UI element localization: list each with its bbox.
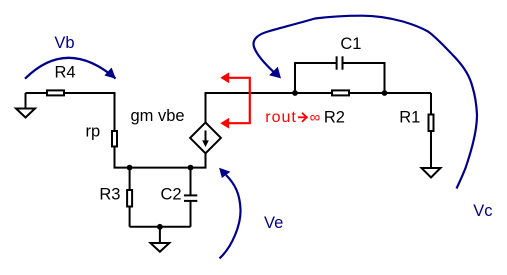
node (junction dot R3)	[127, 165, 133, 171]
svg-text:Vc: Vc	[473, 202, 492, 220]
dependent current source gm vbe	[190, 123, 221, 154]
wire	[129, 207, 131, 227]
wire	[206, 93, 432, 123]
resistor R3	[127, 190, 132, 207]
wire	[430, 131, 432, 168]
rout red bracket with arrows	[229, 78, 250, 123]
node (junction dot C1 left)	[292, 90, 298, 96]
capacitor C2	[184, 168, 197, 227]
wire	[130, 226, 191, 228]
node (junction dot gnd)	[157, 224, 163, 230]
svg-text:Ve: Ve	[264, 214, 283, 232]
svg-text:R3: R3	[99, 185, 120, 203]
svg-text:R4: R4	[55, 63, 76, 81]
wire	[430, 93, 432, 115]
Ve arc arrow	[220, 175, 241, 258]
svg-text:gm vbe: gm vbe	[131, 107, 185, 125]
svg-text:C2: C2	[161, 185, 182, 203]
node (junction dot C1 right)	[382, 90, 388, 96]
svg-text:C1: C1	[340, 35, 361, 53]
svg-text:rout: rout	[265, 109, 297, 126]
wire	[115, 147, 206, 168]
ground	[16, 93, 35, 118]
svg-text:rp: rp	[86, 122, 101, 140]
wire	[64, 93, 115, 131]
ground	[151, 227, 170, 252]
node (junction dot C2)	[188, 165, 194, 171]
svg-text:R2: R2	[324, 108, 345, 126]
ground	[422, 168, 441, 178]
wire	[129, 168, 131, 190]
resistor R4	[47, 90, 64, 95]
resistor rp	[112, 131, 117, 147]
resistor R2	[332, 90, 349, 95]
resistor R1	[429, 115, 434, 132]
Vb arc arrow	[25, 58, 116, 79]
svg-text:∞: ∞	[310, 109, 321, 126]
svg-text:Vb: Vb	[54, 34, 74, 52]
Vc big curve arrow	[254, 16, 477, 189]
wire	[26, 92, 47, 94]
svg-text:R1: R1	[399, 108, 420, 126]
capacitor C1	[295, 56, 385, 93]
